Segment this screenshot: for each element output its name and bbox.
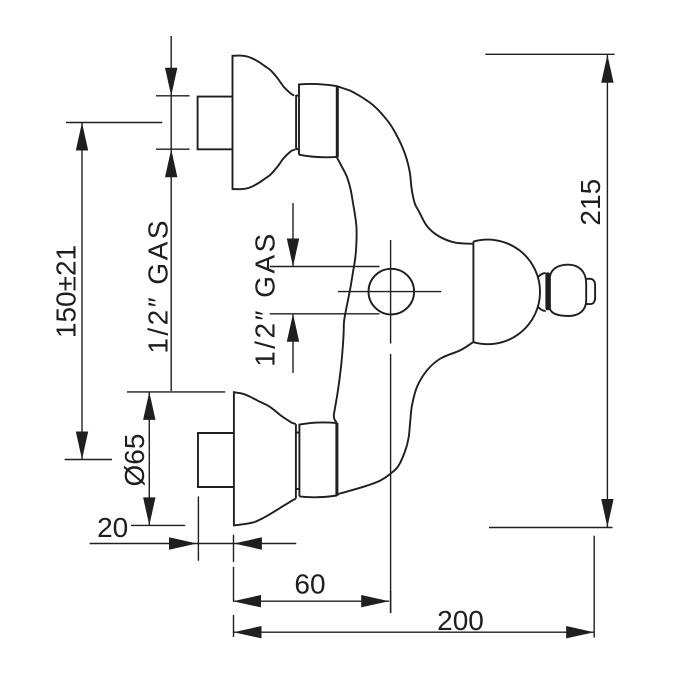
dim ø65 arrow up <box>143 392 155 420</box>
dim 215 arrow down <box>601 499 613 527</box>
dim 150±21 tick bottom <box>65 459 112 461</box>
dim 20 arrow right <box>169 537 197 549</box>
handle bell left edge <box>472 241 474 342</box>
faucet body top outline <box>338 86 474 243</box>
svg-text:150±21: 150±21 <box>51 245 82 338</box>
top mounting ring <box>299 84 337 157</box>
handle bell dome <box>473 240 540 345</box>
dim 20 line left <box>90 543 197 545</box>
svg-text:Ø65: Ø65 <box>119 434 150 487</box>
bottom escutcheon bell <box>234 392 296 525</box>
handle knob <box>550 265 586 316</box>
dim 60 line <box>233 600 389 602</box>
handle cap <box>586 279 595 304</box>
dim mid 1/2 GAS arrow down <box>287 239 299 267</box>
dim top 1/2 GAS tick upper <box>156 95 190 97</box>
dim 20 arrow left <box>234 537 262 549</box>
handle neck fillet top <box>538 273 546 278</box>
dim mid 1/2 GAS line upper <box>292 203 294 267</box>
faucet body bottom-right outline <box>337 342 473 494</box>
faucet body left waist outline <box>334 158 357 423</box>
dim 215 line <box>606 55 608 527</box>
dim top 1/2 GAS arrow down <box>165 68 177 96</box>
svg-text:60: 60 <box>294 569 325 600</box>
top escutcheon bell <box>233 56 296 190</box>
dim 200 line <box>234 631 595 633</box>
dim 215 arrow up <box>601 55 613 83</box>
dim 150±21 arrow up <box>76 123 88 151</box>
dim mid 1/2 GAS extension upper <box>270 266 380 268</box>
dim ø65 extension top <box>127 391 225 393</box>
dim 60 arrow right <box>361 595 389 607</box>
bottom ring right edge <box>335 423 338 496</box>
dim top 1/2 GAS line <box>170 36 172 391</box>
top neck ring <box>296 95 299 150</box>
bottom mounting ring <box>299 422 337 497</box>
handle disc <box>545 272 550 310</box>
dim 200 arrow right <box>566 626 594 638</box>
svg-text:215: 215 <box>575 179 606 226</box>
dim 200 arrow left <box>234 626 262 638</box>
top pipe stub <box>198 97 233 150</box>
dim mid 1/2 GAS extension lower <box>270 313 380 315</box>
dim 150±21 line <box>81 123 83 460</box>
dim top 1/2 GAS tick lower <box>156 148 190 150</box>
dim 215 extension line bottom <box>489 527 613 529</box>
dim 215 extension line top <box>485 53 614 55</box>
dim 20 line right <box>234 543 296 545</box>
svg-text:20: 20 <box>97 512 128 543</box>
outlet circle <box>369 269 415 315</box>
bottom pipe stub <box>198 433 234 487</box>
dim top 1/2 GAS arrow up <box>165 149 177 177</box>
dim 20 line middle <box>197 543 234 545</box>
dim ø65 line <box>148 392 150 526</box>
handle neck fillet bottom <box>538 307 546 312</box>
dim 60 arrow left <box>233 595 261 607</box>
dim ø65 leader 20 / extension bottom <box>131 524 185 526</box>
top ring right edge <box>336 86 339 158</box>
bottom neck ring <box>296 424 300 499</box>
dim 60 extension right (axis) <box>390 591 392 613</box>
dim 150±21 tick top <box>66 122 162 124</box>
dim ø65 arrow down <box>143 497 155 525</box>
dim 20 extension left (stub edge) <box>197 496 199 560</box>
svg-text:1/2″ GAS: 1/2″ GAS <box>142 218 173 354</box>
svg-text:1/2″ GAS: 1/2″ GAS <box>250 231 281 367</box>
dim 150±21 arrow down <box>76 432 88 460</box>
dim mid 1/2 GAS line lower <box>292 314 294 373</box>
dim 200 extension right (knob tip) <box>593 536 595 638</box>
horizontal centerline <box>338 291 441 293</box>
svg-text:200: 200 <box>437 605 484 636</box>
dim 20 extension right wall dashed <box>233 535 235 637</box>
vertical centerline <box>390 240 392 613</box>
dim mid 1/2 GAS arrow up <box>287 314 299 342</box>
